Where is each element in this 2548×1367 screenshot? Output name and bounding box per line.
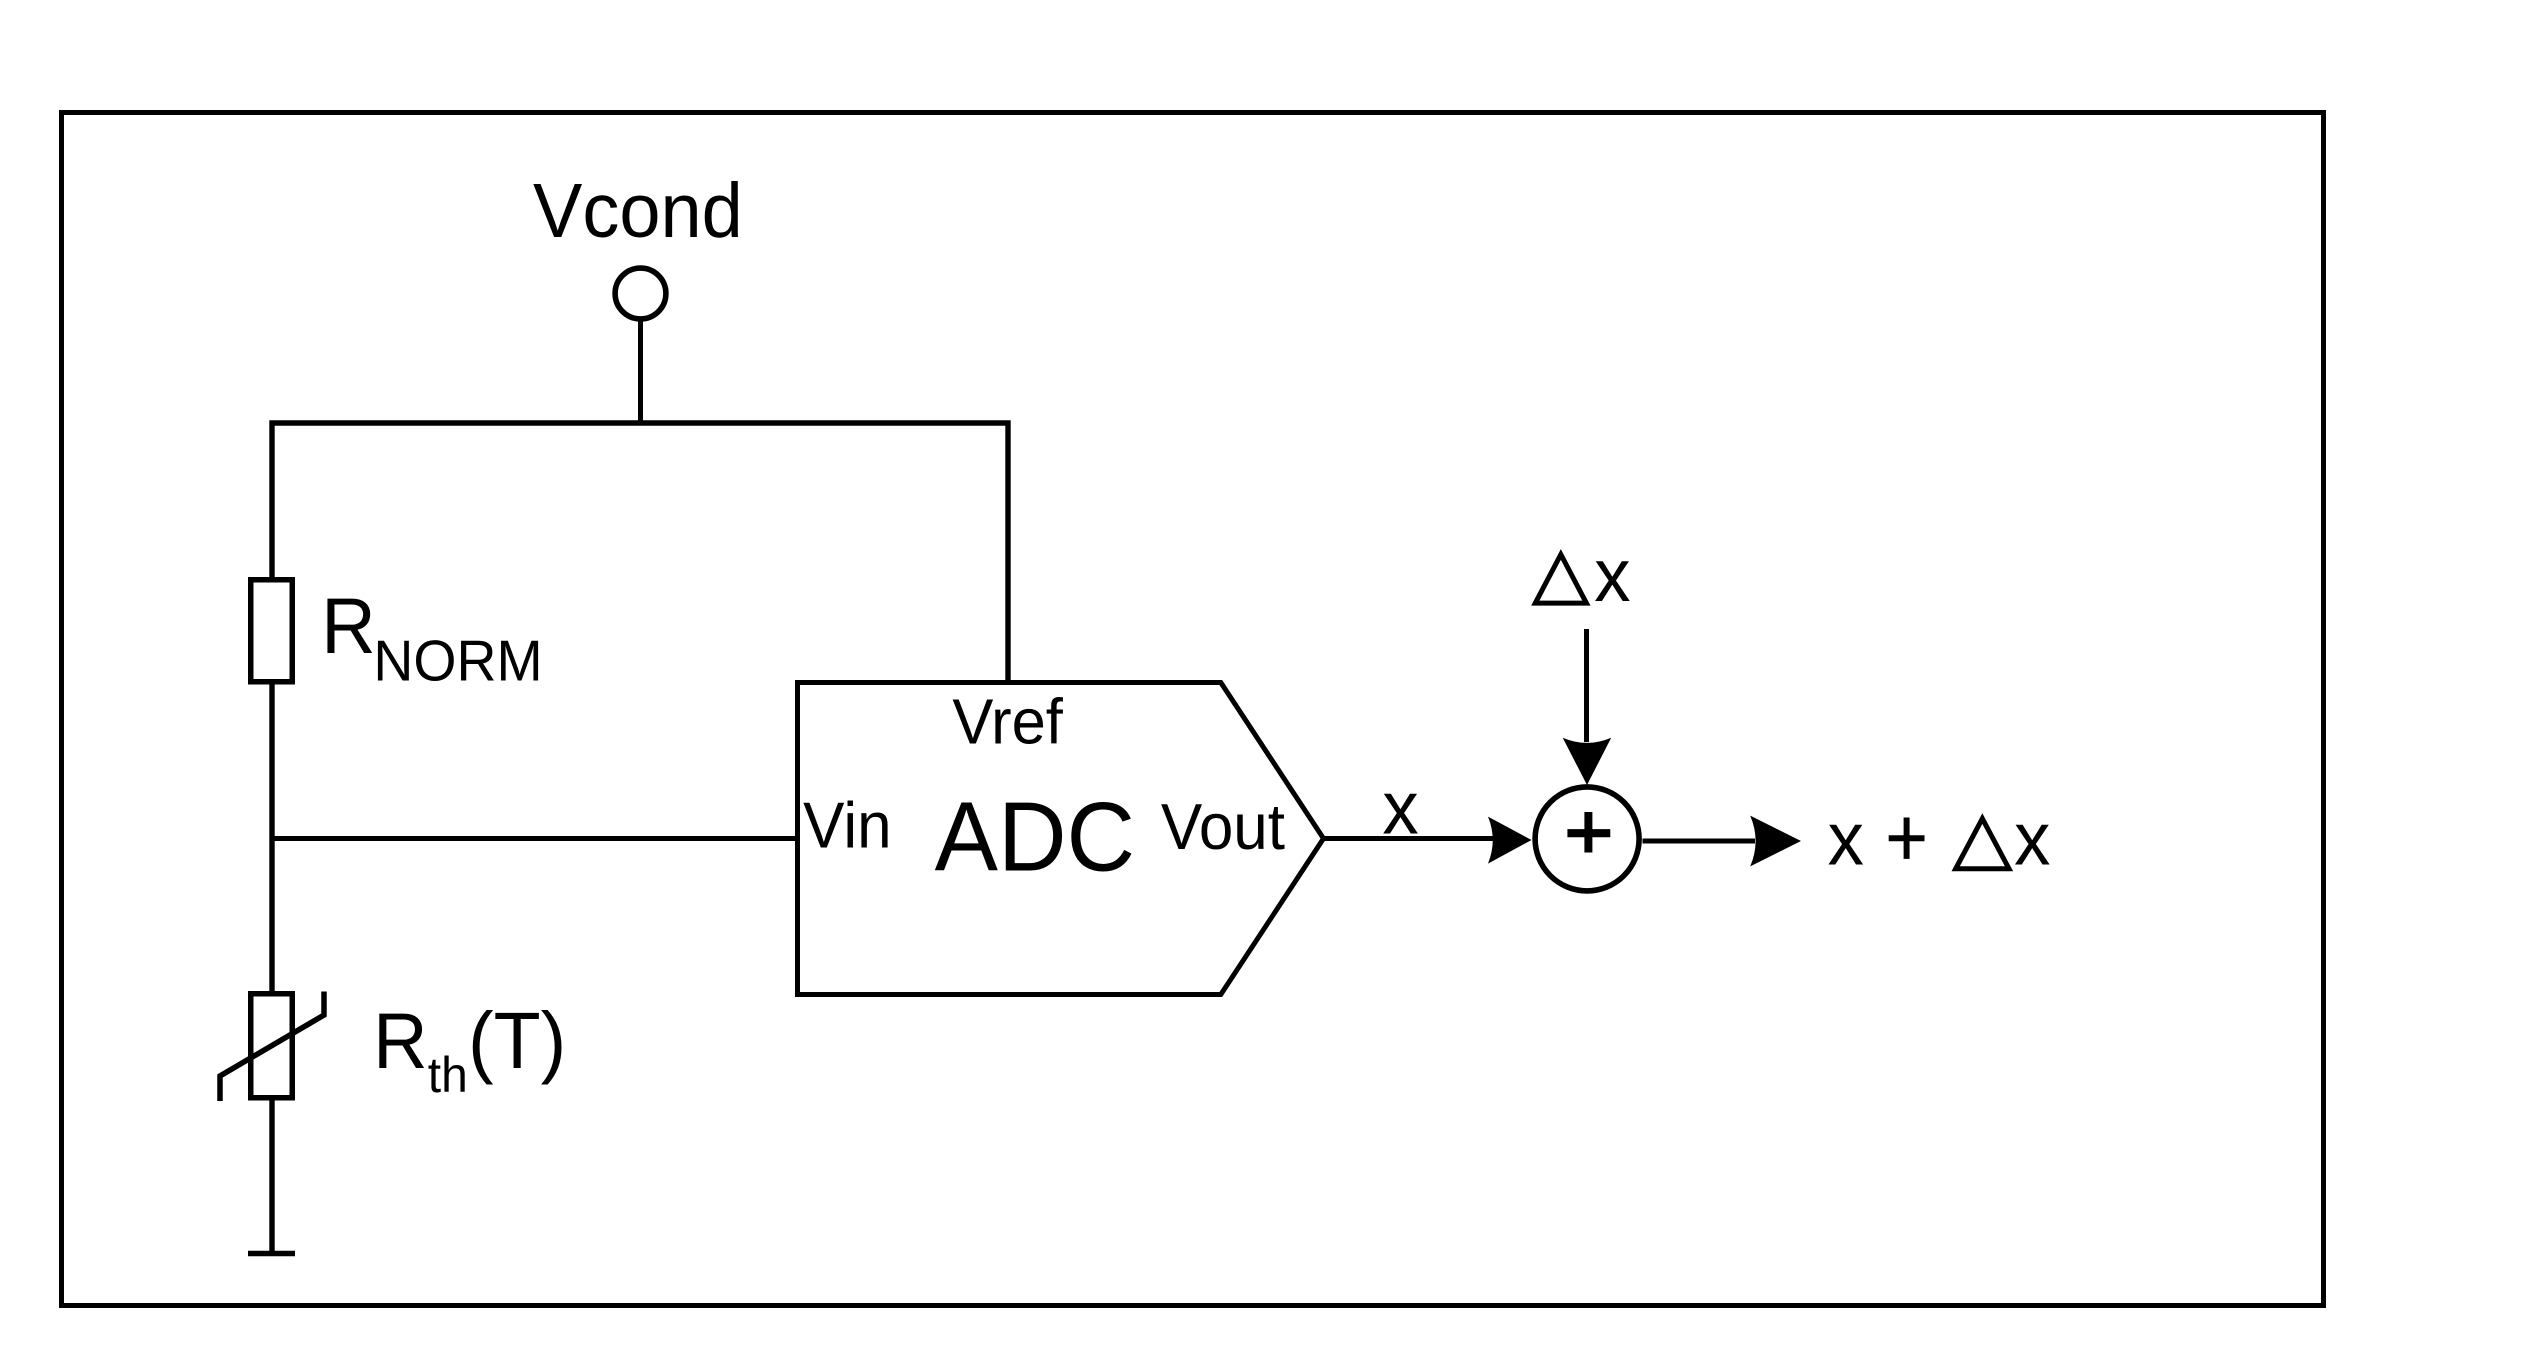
svg-text:Vcond: Vcond	[533, 168, 743, 254]
svg-text:R: R	[373, 998, 428, 1086]
ground	[248, 1251, 295, 1257]
terminal Vcond	[615, 268, 666, 319]
wire thermistor to ground	[269, 1101, 274, 1254]
label delta-x top : triangle	[1535, 555, 1586, 604]
arrowhead into summer left	[1488, 817, 1532, 864]
border frame	[62, 113, 2324, 1306]
summing junction	[1535, 787, 1639, 891]
svg-text:Vin: Vin	[803, 790, 891, 861]
resistor RNORM	[251, 580, 293, 682]
label x + delta-x : triangle	[1956, 819, 2009, 869]
svg-text:Vout: Vout	[1161, 792, 1286, 863]
svg-text:th: th	[428, 1048, 468, 1103]
svg-text:ADC: ADC	[935, 781, 1136, 892]
svg-text:x: x	[1594, 532, 1630, 617]
wire from Vcond terminal down to top rail	[638, 322, 643, 424]
wire node Vin to ADC input	[272, 836, 798, 841]
svg-text:R: R	[321, 583, 376, 671]
svg-text:x: x	[1382, 765, 1418, 850]
thermistor diagonal stroke	[220, 992, 324, 1102]
arrowhead output	[1750, 816, 1801, 867]
wire top rail with left and right vertical drops	[272, 423, 1008, 683]
svg-text:x: x	[1828, 796, 1864, 881]
arrowhead into summer top	[1563, 738, 1612, 785]
svg-text:(T): (T)	[468, 996, 566, 1086]
wire ADC output	[1324, 836, 1495, 841]
svg-text:NORM: NORM	[373, 628, 542, 692]
svg-text:Vref: Vref	[952, 686, 1063, 757]
wire delta-x down to summer	[1584, 629, 1589, 742]
wire summer output	[1643, 839, 1756, 844]
svg-text:x: x	[2014, 796, 2050, 881]
thermistor Rth body	[251, 994, 293, 1098]
wire resistor to thermistor through node Vin	[269, 685, 274, 992]
ADC block U1	[798, 683, 1324, 995]
label x + delta-x : plus	[1889, 835, 1925, 841]
plus sign	[1567, 829, 1610, 837]
